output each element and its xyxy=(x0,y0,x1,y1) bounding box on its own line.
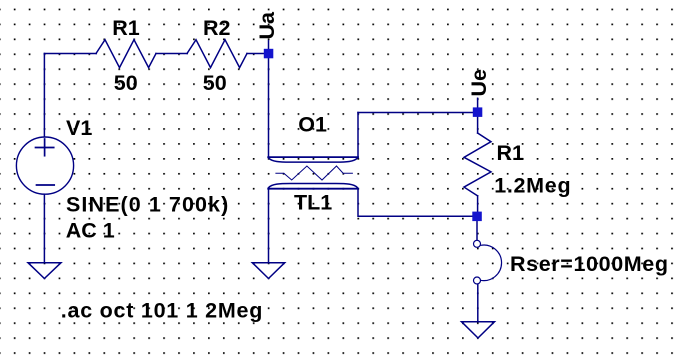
ground under V1 xyxy=(28,263,61,279)
wire V1 top vertical xyxy=(43,54,45,138)
resistor R1 (right, 1.2Meg) xyxy=(464,133,491,196)
transmission line O1/TL1 internal zigzag xyxy=(276,166,353,180)
node Ua junction square xyxy=(264,49,274,59)
svg-text:50: 50 xyxy=(203,71,227,95)
ground under TL1 xyxy=(252,263,284,279)
series element (Rser=1000Meg) top terminal circle xyxy=(474,240,481,247)
net label Ue anchor stub xyxy=(477,98,479,107)
voltage source V1 circle xyxy=(16,137,73,194)
wire R1 bottom to lower node xyxy=(477,196,479,217)
wire V1 bottom to ground xyxy=(43,194,45,262)
wire TL1 bottom-left pin down to ground xyxy=(268,189,270,263)
lower node junction square xyxy=(472,212,482,222)
svg-text:R2: R2 xyxy=(203,16,231,40)
svg-text:TL1: TL1 xyxy=(294,190,332,214)
series element (Rser=1000Meg) arc body xyxy=(480,245,501,281)
svg-text:1.2Meg: 1.2Meg xyxy=(494,174,571,198)
svg-text:AC 1: AC 1 xyxy=(66,218,115,242)
node Ue junction square xyxy=(473,107,483,117)
wire TL1 bottom-right pin xyxy=(358,189,473,217)
svg-text:Ua: Ua xyxy=(255,11,279,40)
transmission line O1/TL1 bottom plate xyxy=(268,184,358,189)
svg-text:.ac oct 101 1 2Meg: .ac oct 101 1 2Meg xyxy=(61,298,263,322)
wire node Ue down to R1 xyxy=(477,113,479,134)
V1 plus sign xyxy=(36,139,54,156)
svg-text:SINE(0 1 700k): SINE(0 1 700k) xyxy=(66,192,229,216)
svg-text:R1: R1 xyxy=(497,141,525,165)
series element (Rser=1000Meg) bottom terminal circle xyxy=(474,277,481,284)
resistor R1 (top, 50) xyxy=(96,40,156,68)
wire series element to ground xyxy=(477,284,479,321)
svg-text:O1: O1 xyxy=(298,113,327,137)
svg-text:Rser=1000Meg: Rser=1000Meg xyxy=(510,252,669,276)
wire TL1 top-right pin up xyxy=(357,113,359,158)
wire to node Ue xyxy=(358,112,478,114)
V1 minus sign xyxy=(37,184,55,186)
wire top-left horizontal to R1 xyxy=(44,53,96,55)
wire node Ua down to transmission line top plate xyxy=(268,54,270,158)
svg-text:Ue: Ue xyxy=(467,69,491,97)
svg-text:R1: R1 xyxy=(112,16,140,40)
transmission line O1/TL1 top plate xyxy=(268,157,358,162)
wire between R1 and R2 xyxy=(156,53,187,55)
ground bottom right xyxy=(462,322,495,338)
wire lower node down to series element xyxy=(476,221,478,240)
resistor R2 (top, 50) xyxy=(187,40,247,68)
wire R2 to node Ua xyxy=(247,53,269,55)
net label Ua anchor stub xyxy=(268,41,270,49)
svg-text:V1: V1 xyxy=(66,116,92,140)
svg-text:50: 50 xyxy=(114,71,138,95)
